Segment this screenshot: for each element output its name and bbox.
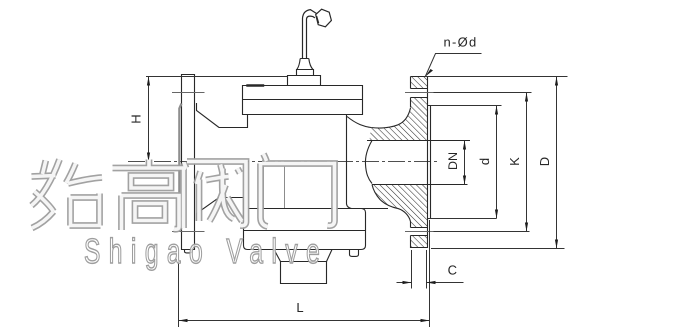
outlet lower boundary — [372, 185, 411, 222]
dim C — [411, 250, 413, 289]
wm char fa — [184, 162, 247, 229]
dim d — [431, 105, 502, 107]
bore bottom line — [372, 184, 468, 186]
fitting washer — [297, 70, 314, 76]
pipe fitting cone — [297, 59, 313, 70]
bonnet cap — [288, 76, 321, 86]
bonnet — [243, 86, 363, 115]
svg-text:H: H — [129, 114, 144, 123]
centerline — [128, 161, 440, 163]
svg-text:K: K — [507, 157, 522, 166]
outlet seat S-curve — [365, 141, 372, 184]
svg-text:L: L — [296, 300, 303, 315]
svg-text:Shigao Valve: Shigao Valve — [84, 232, 328, 271]
left flange bottom foot — [185, 250, 192, 253]
body neck lower — [197, 198, 244, 222]
right flange raised face — [428, 106, 431, 219]
svg-text:DN: DN — [446, 152, 460, 170]
right flange outline — [411, 77, 428, 248]
vent nozzle bell — [316, 9, 332, 27]
bottom box top edge — [244, 208, 389, 210]
drain plug — [281, 262, 327, 284]
bottom box mid line — [244, 230, 366, 232]
left flange raised face — [179, 104, 181, 221]
hatched upper wall — [370, 98, 428, 141]
left flange plate — [182, 75, 195, 250]
svg-text:n-Ød: n-Ød — [443, 35, 477, 50]
dimension labels — [129, 35, 552, 316]
wm char men — [261, 154, 335, 227]
bonnet top thick seg — [246, 84, 264, 86]
hatched flange top piece — [411, 77, 428, 89]
hatched flange bottom piece — [411, 236, 428, 248]
outlet upper outer curve — [347, 108, 411, 128]
bottom box left edge — [244, 199, 366, 250]
chamber right wall — [347, 115, 352, 209]
bore top line — [367, 140, 470, 142]
left flange bolt tick bottom — [172, 231, 205, 233]
right flange bolt ticks — [405, 93, 434, 232]
dim K — [434, 92, 532, 94]
dim L — [178, 253, 180, 328]
dim DN — [464, 141, 466, 185]
wm char shi — [32, 160, 103, 229]
gooseneck vent pipe — [303, 10, 317, 59]
svg-text:C: C — [448, 263, 457, 278]
svg-text:d: d — [477, 158, 492, 165]
left flange bolt tick top — [172, 92, 205, 94]
hatched lower wall — [372, 185, 428, 228]
wm char gao — [113, 160, 187, 231]
dim D — [425, 76, 568, 78]
n-Od leader — [425, 54, 481, 77]
watermark — [32, 154, 335, 271]
dim H line — [148, 77, 150, 162]
H extension line — [146, 76, 288, 78]
dimension graphics — [146, 54, 568, 328]
svg-text:D: D — [537, 157, 552, 166]
bottom right foot — [350, 250, 359, 257]
chamber internal lines — [264, 162, 285, 209]
body neck upper — [197, 103, 248, 128]
drain trapezoid — [274, 250, 332, 262]
